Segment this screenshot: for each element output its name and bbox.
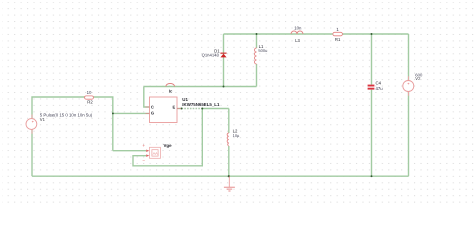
- pin C stub: [146, 106, 150, 108]
- junction C4 top: [371, 33, 373, 35]
- wire diode column D1: [223, 34, 225, 87]
- svg-text:5 Pulse(0 15 0 10n 10n 5u): 5 Pulse(0 15 0 10n 10n 5u): [40, 113, 93, 118]
- svg-text:IKW75N65EL5_L1: IKW75N65EL5_L1: [182, 102, 220, 107]
- svg-text:Vge: Vge: [164, 143, 173, 148]
- svg-text:C4: C4: [376, 81, 382, 86]
- svg-text:10: 10: [87, 90, 92, 95]
- resistor R1: [333, 27, 343, 42]
- resistor R2: [85, 90, 94, 104]
- svg-text:V2: V2: [415, 76, 421, 81]
- pin G stub: [146, 112, 150, 114]
- junction ground rail at L2: [228, 175, 230, 177]
- wire emitter E to L2: [177, 108, 229, 110]
- svg-text:500u: 500u: [258, 48, 267, 53]
- wire V1 to R2 to gate corner: [32, 97, 113, 151]
- svg-text:V1: V1: [40, 117, 46, 122]
- junction emitter node B: [201, 108, 203, 110]
- wire top rail from D1 column to V2 column: [224, 33, 409, 35]
- pin stubs V1: [31, 115, 33, 119]
- svg-text:47u: 47u: [376, 86, 384, 91]
- voltage source V1: [26, 113, 93, 134]
- svg-text:+: +: [142, 143, 145, 148]
- svg-text:−: −: [142, 158, 145, 163]
- current probe Ic on collector rail: [166, 83, 175, 93]
- junction emitter node A: [181, 108, 183, 110]
- IGBT subcircuit block U1: [146, 97, 220, 123]
- svg-text:10µ: 10µ: [233, 133, 240, 138]
- pin E stub: [177, 108, 181, 110]
- svg-text:E: E: [173, 105, 176, 110]
- wire L2 column: [228, 109, 230, 177]
- svg-text:C: C: [151, 105, 154, 110]
- svg-text:L3: L3: [295, 38, 300, 43]
- wire C4 column: [371, 34, 373, 176]
- wire V1 bottom column: [31, 129, 33, 176]
- svg-text:R2: R2: [87, 99, 93, 104]
- svg-text:R1: R1: [335, 37, 341, 42]
- wire Vge minus loop to emitter node: [133, 109, 202, 166]
- wire V2 column: [408, 34, 410, 176]
- differential voltage probe Vge: [142, 143, 172, 163]
- junction L1 top: [256, 33, 258, 35]
- ground: [224, 176, 235, 191]
- junction ground rail at C4: [371, 175, 373, 177]
- wire bottom ground rail: [32, 175, 409, 177]
- wire collector drop to C pin: [144, 87, 150, 108]
- pin minus arrow: [146, 154, 149, 157]
- pin plus arrow: [146, 150, 149, 153]
- inductor L3: [291, 26, 303, 43]
- wire gate G pin: [113, 112, 150, 114]
- inductor L1: [255, 44, 268, 64]
- wire collector horizontal rail: [144, 86, 257, 88]
- voltage source V2: [403, 72, 423, 95]
- junction gate node: [112, 112, 114, 114]
- diode D1: [202, 49, 227, 58]
- wire emitter dashed probe segment: [182, 108, 203, 110]
- svg-text:Q1n4148: Q1n4148: [202, 52, 220, 57]
- inductor L2: [227, 129, 240, 146]
- junction diode anode node: [223, 86, 225, 88]
- capacitor C4: [368, 81, 384, 92]
- svg-text:G: G: [151, 111, 154, 116]
- wire L1 column: [256, 34, 258, 87]
- svg-text:10n: 10n: [294, 26, 302, 31]
- wire Vge plus input: [113, 150, 146, 152]
- pin stubs V2: [408, 76, 410, 80]
